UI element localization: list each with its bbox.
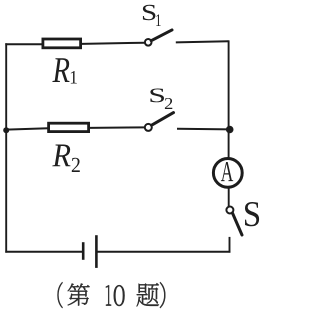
label S2	[150, 88, 164, 102]
wire: bottom horizontal from corner to battery positive plate	[96, 251, 230, 253]
wire: middle horizontal from R2 to switch S2	[90, 126, 145, 129]
wire: middle horizontal from junction to R2	[6, 128, 48, 129]
resistor R2 (box symbol)	[49, 123, 89, 131]
wire: right vertical from top corner down to ammeter	[228, 40, 230, 159]
label R1	[52, 58, 69, 82]
wire: left vertical bus	[5, 43, 7, 252]
node: junction on right bus (R2 branch)	[226, 126, 234, 134]
wire: right vertical from S down to bottom corner	[229, 237, 231, 253]
label R2	[52, 144, 70, 166]
label S	[245, 202, 259, 226]
switch S (pivot circle and open lever)	[226, 207, 233, 214]
battery BT1: short (negative) plate	[82, 242, 85, 260]
wire: right vertical from ammeter to switch S	[228, 187, 230, 206]
wire: top-right horizontal from S1 to corner	[176, 41, 229, 42]
ammeter A1 (circle with letter A)	[213, 159, 242, 188]
wire: bottom horizontal from battery negative plate to left corner	[5, 251, 82, 253]
caption: （第 10 题）	[57, 282, 62, 308]
wire: middle horizontal from S2 to right junction	[177, 128, 230, 131]
switch S1 (pivot circle and open lever)	[145, 39, 152, 46]
switch S2 (pivot circle and open lever)	[145, 124, 152, 131]
wire: top horizontal from R1 to switch S1	[82, 43, 145, 44]
battery BT1: long (positive) plate	[95, 235, 98, 268]
label S1	[143, 5, 156, 20]
node: junction on left bus (R2 branch)	[3, 127, 9, 133]
wire: top-left horizontal from corner to R1	[5, 43, 42, 45]
resistor R1 (box symbol)	[43, 39, 81, 48]
